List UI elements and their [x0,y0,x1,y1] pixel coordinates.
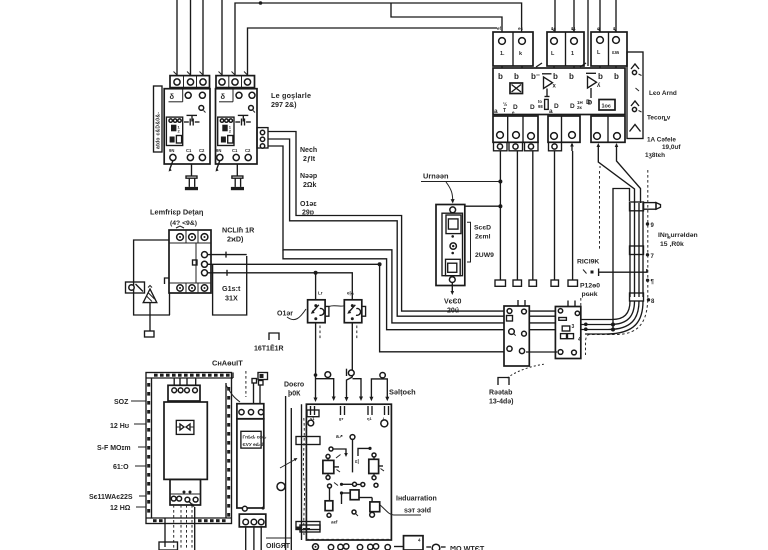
wire U1 drop2 [516,151,518,280]
symbol X-box [510,83,523,94]
wire feed A1 [465,204,502,208]
terminator TR4 [551,280,559,286]
relay sub-block in Q1 [166,117,182,145]
svg-text:OƖlGЯT: OƖlGЯT [266,543,291,550]
wire branch to U1 cell1 [391,3,502,32]
wire L3 top feed [202,0,204,76]
leader Rastab to M1 [507,364,544,378]
wire entry ticks U1 [552,29,617,32]
bus link M1-M2 lines [529,316,555,330]
svg-text:2ϰD): 2ϰD) [227,235,244,244]
svg-text:1oє: 1oє [602,104,611,110]
device box bottom-right [394,536,423,550]
board bottom dotted line [306,538,391,540]
label 1A Cofele [647,137,681,152]
link M1-M2 bottom [526,351,557,353]
svg-text:1.: 1. [500,51,505,57]
label SC&D [474,225,494,260]
U1 b-row letters [498,72,619,81]
svg-text:b: b [598,72,603,81]
relay RL2 [329,291,366,323]
wire junction drop x380 to M1 [380,264,504,352]
terminator TR1 [495,280,506,286]
wire L4 top feed [221,0,223,76]
U1 top cells pair3 [591,26,627,66]
svg-text:(4? <9&): (4? <9&) [170,220,197,227]
wire staircase S3 [268,146,504,323]
svg-text:Lєo Arnd: Lєo Arnd [649,90,677,97]
svg-text:b⁻: b⁻ [531,72,540,81]
svg-text:½: ½ [503,101,507,108]
U1 aD-row letters [494,99,591,115]
svg-text:O1əɛ: O1əɛ [300,201,317,208]
bottom-right icons [426,544,445,550]
svg-text:15 ,R0k: 15 ,R0k [660,241,684,248]
capacitor symbol in Q2 [235,115,251,125]
svg-text:9N: 9N [169,148,174,153]
svg-text:C1: C1 [186,148,192,153]
svg-text:61:O: 61:O [113,464,129,471]
svg-text:ЄVУ өԃԃ: ЄVУ өԃԃ [243,442,265,447]
bottom connector box [159,542,178,550]
clamp bottom [630,293,644,301]
svg-text:2єml: 2єml [475,234,491,241]
svg-text:Dоєrо: Dоєrо [284,382,304,389]
arrow pointer to twin wires [280,458,298,468]
svg-text:Nech: Nech [300,147,317,154]
svg-text:D: D [570,103,575,110]
wire U1 cell6 diagonal to bundle [598,152,634,203]
wire board inner edge line [301,404,303,540]
svg-text:e|&: e|& [347,291,355,296]
leader Indusrration to resistor [380,505,421,515]
svg-text:Rəətab: Rəətab [489,390,512,397]
board bottom pads [313,544,391,550]
board top tick pairs [310,406,389,421]
clamp mid [630,246,644,255]
svg-text:2ƒIt: 2ƒIt [303,156,316,163]
svg-text:η1: η1 [367,416,372,421]
svg-text:л: л [597,26,600,31]
breaker Q2 internals [219,89,255,113]
svg-text:D: D [586,99,591,106]
U1 cell stubs [502,63,616,68]
wire staircase S4 [283,250,504,330]
label Lemfrisp Detail [150,208,204,228]
label P12&0 prck [580,283,600,299]
capacitor symbol in Q1 [184,115,200,125]
svg-text:Nəəp: Nəəp [300,173,317,180]
wire U1 drop4 [554,151,556,280]
svg-text:4: 4 [578,337,581,343]
label NCLIG 1R [222,226,255,244]
fuse element small [538,99,548,109]
ground stand G2 [231,164,244,190]
dashed drop from prck to M2 [580,298,582,308]
svg-text:2UW9: 2UW9 [475,252,494,259]
board components [296,434,384,532]
terminal raceway box left [154,86,163,152]
wire T1 stem [149,303,151,331]
svg-text:Lr: Lr [318,291,323,296]
svg-text:2к: 2к [577,105,583,110]
wire K3 bottom-left drop [169,293,171,315]
svg-text:b: b [514,72,519,81]
bus M2 to bundle curves [581,301,643,334]
left labels column [89,399,146,512]
wire entry ticks Q1 Q2 [174,72,248,76]
DIN module D1 [226,371,266,550]
svg-text:a: a [549,108,553,115]
terminal strip right of U1 [627,52,643,139]
wire U1 drop3 [532,151,534,280]
svg-text:Tecoȵv: Tecoȵv [647,115,671,122]
svg-text:T: T [503,108,506,114]
bus into M1 line1 [529,310,555,312]
breaker Q1 bottom terminals [169,148,205,161]
hook at K3 bottom-left [165,278,170,284]
arrow stub below Q2 [216,161,219,170]
transducer T1 triangle [143,286,157,303]
svg-text:a: a [494,108,498,115]
label Indusrration [396,496,437,515]
relay RL1 [308,291,329,323]
module M2 (aux) [555,301,581,359]
svg-text:C1: C1 [232,148,238,153]
svg-text:9N: 9N [216,148,221,153]
svg-text:ϺО WТЄT: ϺО WТЄT [450,544,485,550]
wire K3 pin3 out to relays [208,270,353,300]
small box component near relays [258,373,268,380]
svg-text:atdo c&D&0&-: atdo c&D&0&- [156,112,162,149]
svg-text:C2: C2 [245,148,251,153]
breaker Q2 bottom terminals [216,148,251,161]
svg-text:sэт ээƖd: sэт ээƖd [404,508,431,515]
svg-text:1: 1 [571,51,574,57]
clamp top [630,202,644,211]
svg-text:1A Cəfele: 1A Cəfele [647,137,676,144]
svg-text:D: D [554,103,559,110]
svg-text:1є: 1є [551,26,557,31]
U1 sub row [494,142,562,151]
wire left twin vertical 2 [290,408,292,550]
svg-text:19,0ʊf: 19,0ʊf [662,144,681,151]
relay sub-block in Q2 [218,117,234,145]
board mounting holes [308,420,388,427]
ground stand G1 [185,164,198,190]
svg-text:NCLIɦ 1R: NCLIɦ 1R [222,226,255,235]
svg-text:S-F MOɪm: S-F MOɪm [97,445,131,452]
board PCB outline [306,404,391,540]
arrow A1 bottom [451,283,455,296]
arrow Urnaon to SCR module [446,182,455,204]
wire staircase S2 [268,139,504,316]
symbol bracket above 16T1E1R [269,333,279,340]
svg-text:b: b [614,72,619,81]
svg-text:VєЄ0: VєЄ0 [444,299,462,306]
svg-text:G1s:t: G1s:t [222,284,241,293]
wire L2 top feed [190,0,192,76]
svg-text:ɛʍ: ɛʍ [612,50,620,56]
junction dot top bus [259,1,263,5]
drive module DR1 top block [168,378,200,401]
label OllGOT [266,538,292,550]
svg-text:gт: gт [339,416,343,421]
wire K3 pin2 out to junction [208,262,382,266]
tick marks under label [583,269,599,277]
dashed wires below DR1 [174,501,195,550]
terminal dots and digits [646,222,655,305]
symbol amp2 triangle [586,73,601,106]
svg-text:b: b [553,72,558,81]
svg-text:Iнduаrrаtiоn: Iнduаrrаtiоn [396,496,437,503]
wire bus top from K2 to U1 cell2 [235,3,522,76]
bracket A1 labels [467,222,471,262]
label Le goslarle [271,91,311,109]
svg-text:CнAөuIT: CнAөuIT [212,359,243,368]
wire left twin vertical 1 [285,396,287,550]
wire cross line y272 [599,269,647,272]
svg-text:a↗: a↗ [336,434,343,440]
svg-text:INȵurrəldən: INȵurrəldən [658,232,698,239]
small rect board top-left [307,410,319,417]
svg-text:b: b [569,72,574,81]
svg-text:11: 11 [571,26,576,31]
junction dots M2 right [584,323,615,332]
connector J1 on Q2 right [257,128,268,149]
panel P1 outline [146,373,233,524]
wire panel bottom-left drop [164,518,166,547]
breaker Q1 body [164,89,210,164]
drive module DR1 body [164,402,207,479]
terminator TR2 [513,280,522,286]
label Rastab [489,378,514,406]
wire K3 loop left [134,240,170,315]
label INsurralden [658,232,698,248]
svg-text:13-4də): 13-4də) [489,399,514,406]
breaker Q1 top terminal row [170,76,210,88]
wire RL1 branch ring [316,372,336,401]
svg-text:Sє11WAє22S: Sє11WAє22S [89,494,133,501]
dashed left route D1 [599,171,601,250]
clamp on board left upper [296,437,320,445]
svg-text:31X: 31X [225,294,238,303]
svg-text:Səlțоєh: Səlțоєh [389,388,416,397]
wire lower top bus to U1 corner [248,28,498,76]
wire L1 top feed [176,0,178,76]
svg-text:pɢнk: pɢнk [582,291,598,298]
svg-text:20ú: 20ú [447,308,459,315]
stub pencil top [644,203,661,210]
wire RL1 drop [314,323,321,402]
svg-text:δ: δ [170,92,175,101]
svg-text:12 Hʊ: 12 Hʊ [110,423,130,430]
label Nech [300,147,317,163]
terminator TR3 [529,280,537,286]
svg-text:Гrԃԃ сdԃ: Гrԃԃ сdԃ [243,435,267,440]
svg-text:C2: C2 [199,148,205,153]
detail box G1st [213,256,247,315]
partial circle left margin [277,483,285,491]
svg-text:3: 3 [572,324,575,330]
U1 top cells pair2 [547,26,584,66]
arrow stub below Q1 [170,161,173,170]
wire K3 pin1 out [208,252,247,258]
svg-text:ɛ|: ɛ| [355,459,359,465]
svg-text:Le goşlarle: Le goşlarle [271,91,311,100]
panel P1 edge ticks [147,374,230,523]
U1 top cells pair1 [493,26,533,66]
box 1o8 [599,100,615,111]
wire staircase S1 [268,132,504,312]
label V&E0 200 [444,299,462,315]
svg-text:D: D [530,104,535,111]
wire U1 drop1 [499,151,501,280]
svg-text:SсєD: SсєD [474,225,491,232]
wire U1 drop5 [572,151,574,280]
dashed squiggle inside board left [303,418,304,535]
terminator TR5 [568,280,578,286]
label Nasp [300,173,317,189]
label Doero 30K [284,382,304,398]
svg-text:98: 98 [538,104,543,109]
U1 main body [493,68,625,115]
contactor K3 (NCLIG) [169,226,211,293]
svg-text:O1ər: O1ər [277,311,293,318]
label O1&s [300,201,317,217]
arrows under cells 5-7 [570,143,618,153]
ring bracket C into board [369,373,389,402]
sensor B1 box [126,282,145,293]
cable bundle vertical [630,203,643,297]
symbol amp1 triangle [542,74,557,97]
svg-text:16T1Ē1R: 16T1Ē1R [254,345,284,353]
dashed right route D2 [586,166,648,355]
svg-text:ef: ef [497,26,502,31]
svg-text:Lemfriɛp Dețaƞ: Lemfriɛp Dețaƞ [150,208,204,217]
svg-text:RƖCƖ9K: RƖCƖ9K [577,259,599,266]
svg-text:b: b [498,72,503,81]
drive module DR1 bottom block [170,479,201,505]
clamp on board left lower [296,522,320,530]
svg-text:Urnəən: Urnəən [423,172,449,181]
svg-text:297 2&): 297 2&) [271,100,297,109]
module M1 (Rastab) [504,300,529,366]
wire RL2 branch right [353,379,364,401]
svg-text:12 HΩ: 12 HΩ [110,505,131,512]
wire U1 cell7 diagonal to bundle [617,152,641,203]
svg-text:1ʒ8tєh: 1ʒ8tєh [645,152,665,159]
breaker Q1 internals [169,89,206,113]
svg-text:eє: eє [518,26,524,31]
breaker Q2 top terminal row [216,76,255,88]
SCR module A1 [436,205,465,286]
duct rectangle right [613,189,630,330]
svg-text:aєf: aєf [331,520,338,525]
svg-text:SOZ: SOZ [114,399,129,406]
terminator T1 [145,331,155,337]
breaker Q2 body [216,89,258,164]
U1 bottom cells row [493,116,625,142]
wire RL2 drop [345,323,357,402]
wire U1 top feeds [555,0,616,66]
leader curve to relay RL1 [287,309,306,320]
svg-text:ϸ0К: ϸ0К [288,391,301,398]
leader Urnaon to wire [421,180,502,184]
svg-text:P12ө0: P12ө0 [580,283,600,290]
svg-text:δ: δ [221,92,226,101]
svg-text:2Ωk: 2Ωk [303,182,317,189]
